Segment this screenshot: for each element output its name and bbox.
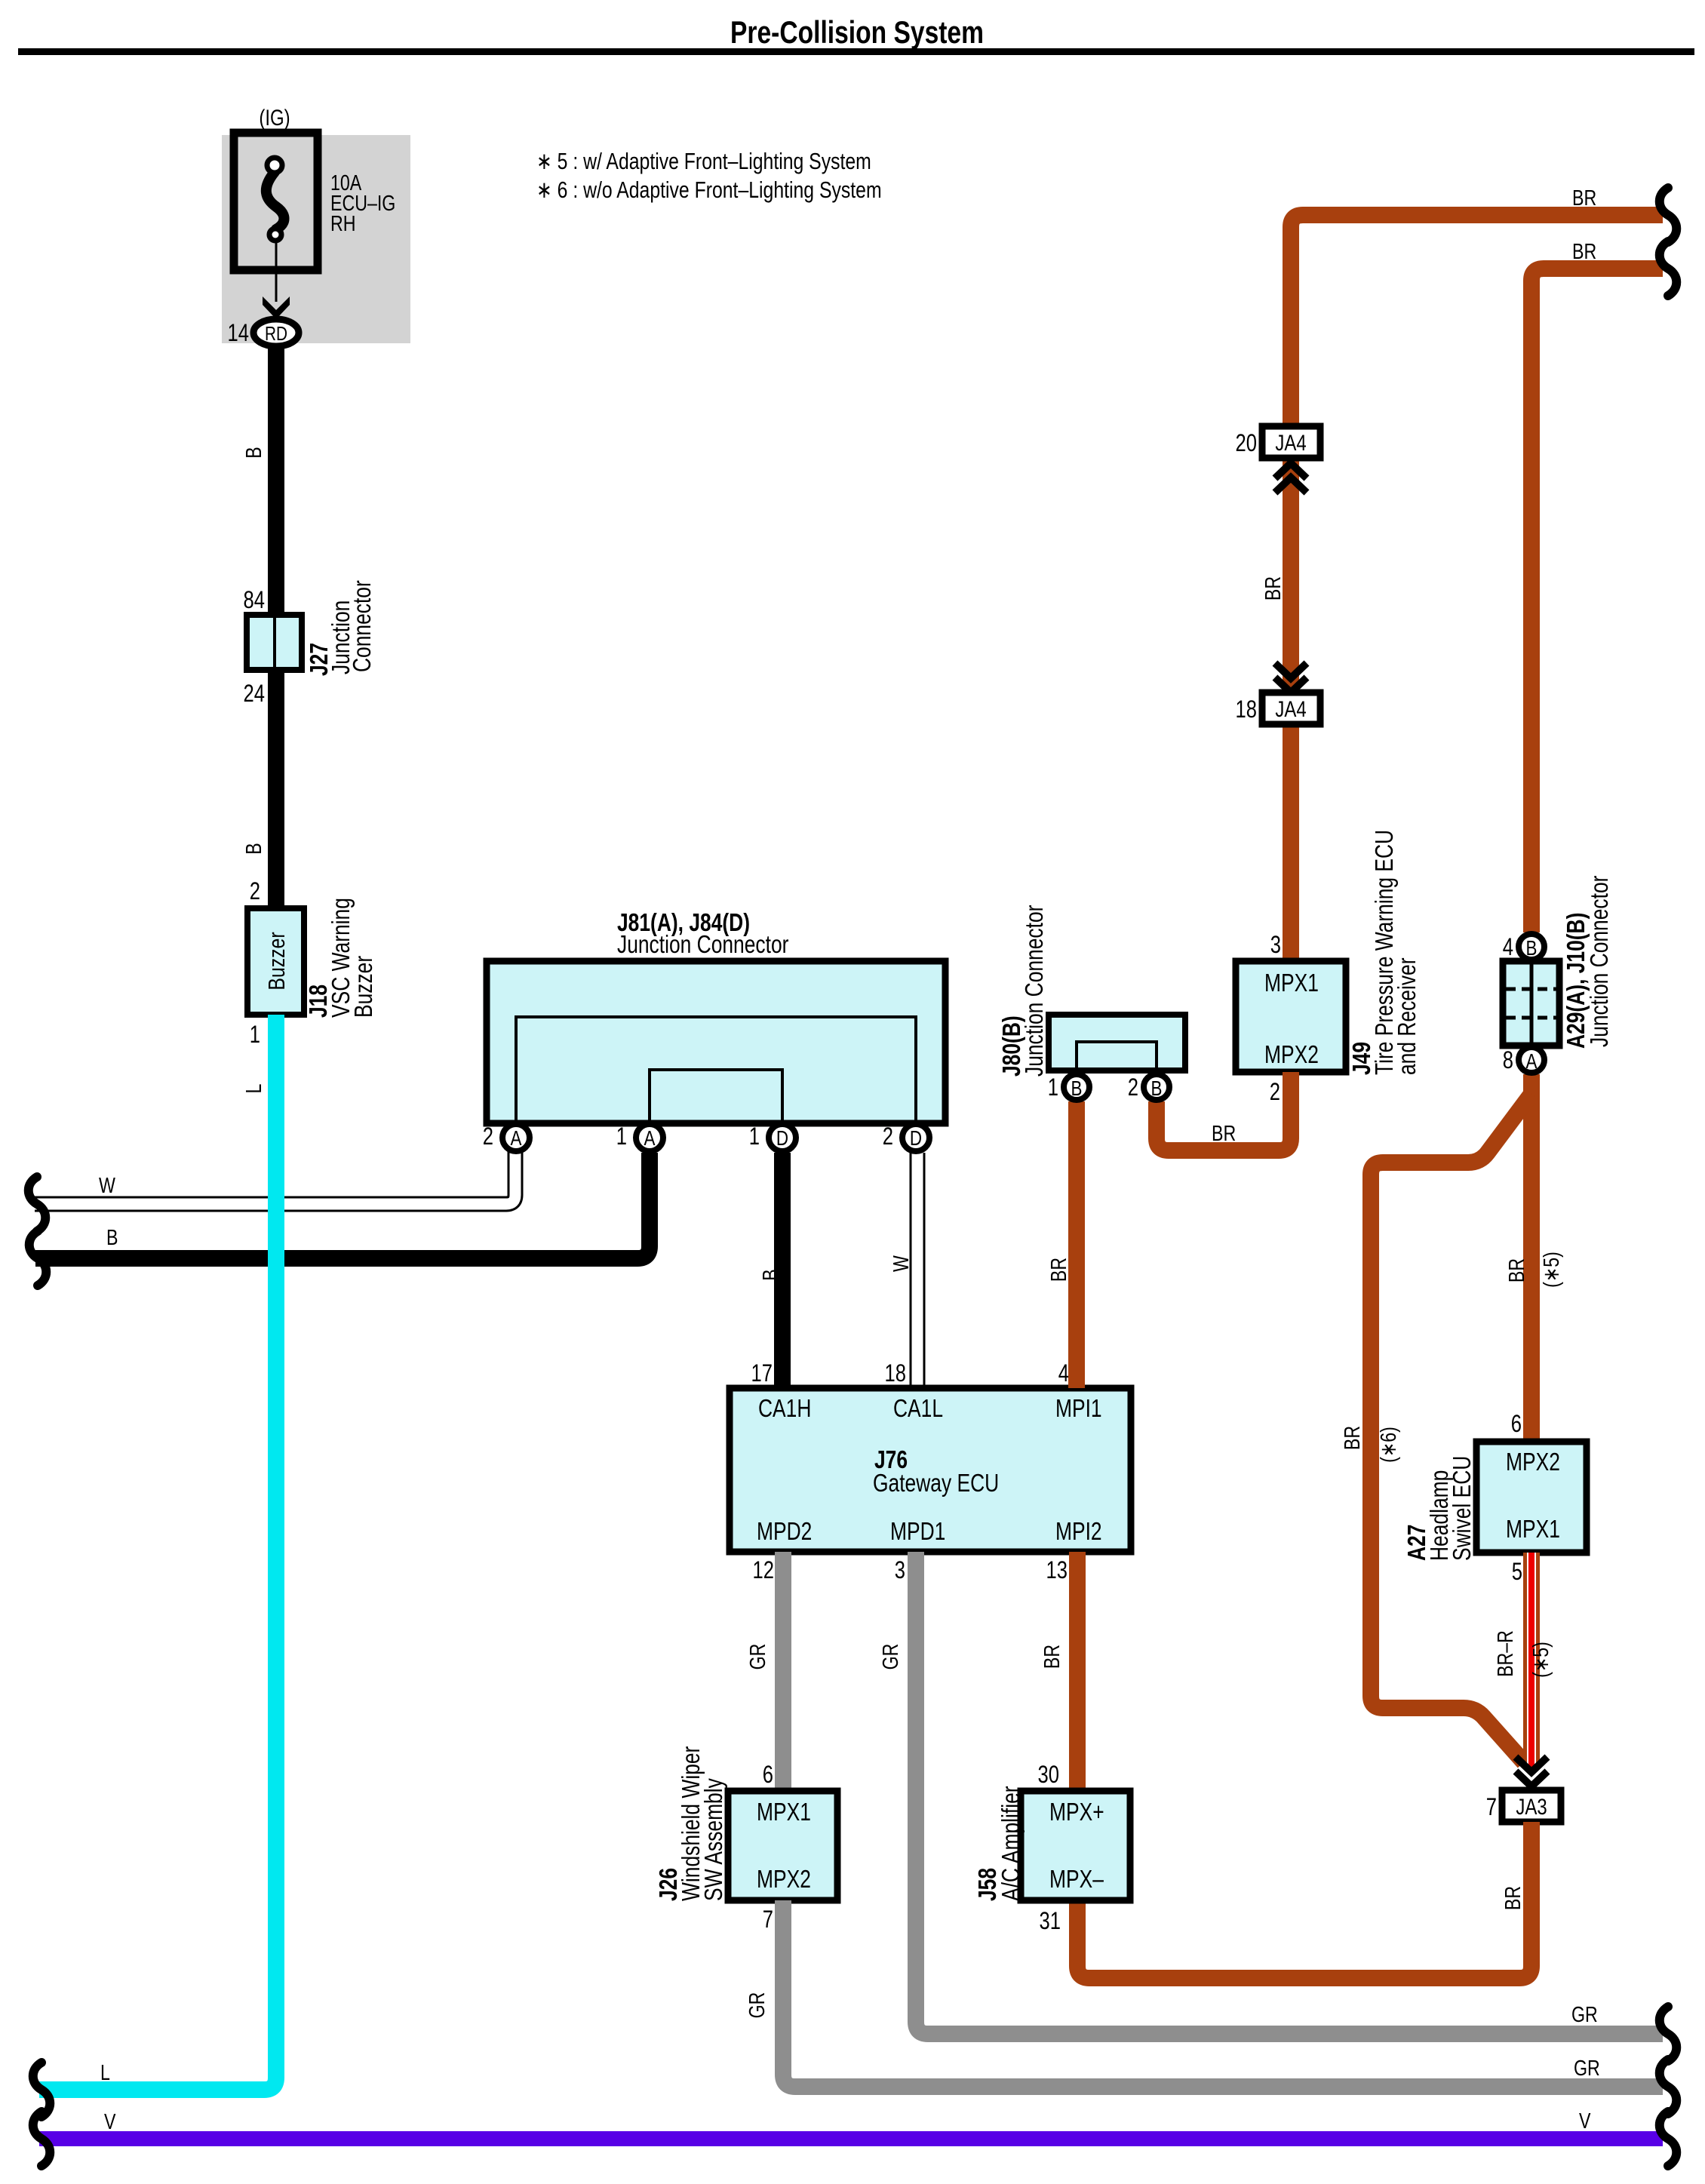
svg-text:MPI2: MPI2 xyxy=(1055,1518,1102,1545)
svg-text:MPX+: MPX+ xyxy=(1049,1798,1104,1826)
svg-text:B: B xyxy=(1151,1077,1163,1101)
svg-text:Junction Connector: Junction Connector xyxy=(617,931,788,958)
svg-text:MPX1: MPX1 xyxy=(1264,969,1319,997)
svg-text:MPD2: MPD2 xyxy=(757,1518,812,1545)
svg-text:MPX1: MPX1 xyxy=(757,1798,811,1826)
svg-text:W: W xyxy=(99,1172,115,1197)
fuse F1 10A ECU-IG RH body xyxy=(234,133,318,270)
svg-text:B: B xyxy=(1526,937,1538,960)
wire BR JA3 down xyxy=(1077,1822,1531,1978)
svg-text:(∗5): (∗5) xyxy=(1528,1642,1553,1678)
title rule xyxy=(18,48,1694,55)
break V left xyxy=(33,2112,51,2166)
svg-text:V: V xyxy=(1579,2108,1591,2133)
svg-text:2: 2 xyxy=(483,1123,493,1150)
svg-text:L: L xyxy=(241,1084,266,1094)
svg-text:D: D xyxy=(776,1127,788,1150)
break L left xyxy=(33,2063,51,2117)
connector RD oval xyxy=(253,319,299,346)
svg-text:4: 4 xyxy=(1503,934,1513,960)
pin circle 1D xyxy=(769,1124,796,1151)
break BR top1 xyxy=(1660,188,1677,242)
svg-text:MPX2: MPX2 xyxy=(1264,1041,1319,1068)
svg-text:(∗5): (∗5) xyxy=(1538,1252,1563,1288)
svg-text:1: 1 xyxy=(616,1123,627,1150)
svg-text:JA4: JA4 xyxy=(1275,696,1306,721)
pin circle 8A xyxy=(1519,1047,1544,1073)
arrow into JA3 xyxy=(1516,1757,1547,1772)
break B left xyxy=(29,1231,47,1286)
svg-text:1: 1 xyxy=(250,1021,260,1048)
pin circle 1B xyxy=(1064,1074,1089,1100)
pin circle 2B xyxy=(1144,1074,1169,1100)
wire BR J80-2B to J49 xyxy=(1157,1072,1291,1150)
svg-text:7: 7 xyxy=(1486,1794,1497,1820)
svg-text:Pre-Collision System: Pre-Collision System xyxy=(730,16,984,51)
arrow into RD xyxy=(263,296,290,319)
svg-text:B: B xyxy=(241,843,266,854)
J80 internal bus xyxy=(1077,1042,1157,1070)
svg-text:24: 24 xyxy=(244,680,265,707)
arrow into JA4 lower xyxy=(1275,663,1307,678)
wire GR J26 pin7 down xyxy=(783,1900,1663,2087)
svg-text:4: 4 xyxy=(1058,1360,1069,1387)
wire L cyan xyxy=(39,1015,276,2090)
svg-text:Swivel ECU: Swivel ECU xyxy=(1448,1456,1476,1561)
svg-text:6: 6 xyxy=(763,1762,773,1788)
svg-text:D: D xyxy=(910,1127,922,1150)
svg-text:18: 18 xyxy=(1236,696,1257,723)
break GR right1 xyxy=(1660,2007,1677,2061)
wire W 2D to J76 xyxy=(910,1153,926,1388)
svg-text:B: B xyxy=(1071,1077,1083,1101)
wire B J27-to-J18 xyxy=(268,670,284,908)
wire BR A29 down xyxy=(1523,1074,1540,1442)
tire pressure ECU J49 xyxy=(1236,961,1346,1072)
svg-text:A/C Amplifier: A/C Amplifier xyxy=(997,1786,1025,1901)
svg-text:BR: BR xyxy=(1339,1426,1364,1450)
svg-text:1: 1 xyxy=(1048,1074,1058,1101)
svg-text:2: 2 xyxy=(1128,1074,1138,1101)
svg-text:Buzzer: Buzzer xyxy=(263,932,289,990)
headlamp swivel ECU A27 xyxy=(1476,1442,1587,1553)
wire B left xyxy=(35,1153,650,1258)
svg-text:B: B xyxy=(241,447,266,458)
svg-text:RH: RH xyxy=(330,210,356,235)
svg-text:MPD1: MPD1 xyxy=(890,1518,945,1545)
svg-text:RD: RD xyxy=(265,323,287,345)
wiper SW J26 xyxy=(728,1791,837,1900)
wire V xyxy=(39,2131,1663,2146)
svg-text:JA4: JA4 xyxy=(1275,429,1306,455)
svg-text:BR: BR xyxy=(1039,1645,1064,1669)
svg-text:MPX–: MPX– xyxy=(1049,1866,1104,1893)
svg-text:18: 18 xyxy=(885,1360,906,1387)
buzzer J18 xyxy=(247,908,304,1015)
wire BR J80-1B to J76 xyxy=(1068,1101,1085,1388)
fuse F1 element xyxy=(266,172,284,229)
connector JA4 lower xyxy=(1262,693,1320,724)
svg-text:Junction Connector: Junction Connector xyxy=(1586,876,1613,1047)
pin circle 4B xyxy=(1519,934,1544,960)
svg-text:BR: BR xyxy=(1046,1258,1071,1282)
svg-text:CA1L: CA1L xyxy=(893,1395,943,1422)
wire GR MPD1 down xyxy=(916,1552,1663,2034)
svg-text:A: A xyxy=(511,1127,522,1150)
pin circle 1A xyxy=(636,1124,663,1151)
svg-text:3: 3 xyxy=(1270,932,1281,958)
svg-text:∗ 5 : w/ Adaptive Front–Lighti: ∗ 5 : w/ Adaptive Front–Lighting System xyxy=(536,148,871,174)
svg-text:6: 6 xyxy=(1511,1411,1522,1437)
connector JA3 xyxy=(1502,1790,1561,1822)
svg-text:MPI1: MPI1 xyxy=(1055,1395,1102,1422)
svg-text:∗ 6 : w/o Adaptive Front–Light: ∗ 6 : w/o Adaptive Front–Lighting System xyxy=(536,177,882,202)
svg-text:SW Assembly: SW Assembly xyxy=(700,1778,727,1901)
svg-text:BR: BR xyxy=(1572,185,1596,210)
svg-text:17: 17 xyxy=(751,1360,773,1387)
svg-text:L: L xyxy=(100,2060,110,2084)
svg-text:BR: BR xyxy=(1500,1886,1525,1910)
break W left xyxy=(29,1177,46,1231)
svg-text:B: B xyxy=(757,1269,782,1280)
svg-text:2: 2 xyxy=(1270,1079,1280,1105)
svg-text:A: A xyxy=(644,1127,656,1150)
wire BR top 2 xyxy=(1531,269,1663,932)
AC amplifier J58 xyxy=(1021,1791,1130,1900)
wire GR MPD2 to J26 xyxy=(775,1552,791,1791)
break BR top2 xyxy=(1660,241,1677,296)
wire W left xyxy=(35,1147,515,1204)
svg-text:31: 31 xyxy=(1040,1908,1061,1934)
svg-text:2: 2 xyxy=(883,1123,893,1150)
svg-text:(∗6): (∗6) xyxy=(1375,1427,1400,1463)
gateway ECU J76 xyxy=(730,1388,1131,1552)
svg-text:W: W xyxy=(888,1255,913,1272)
connector JA4 upper xyxy=(1262,426,1320,458)
svg-text:JA3: JA3 xyxy=(1516,1793,1547,1819)
fuse block shading xyxy=(222,135,410,343)
svg-text:B: B xyxy=(106,1224,118,1249)
svg-text:3: 3 xyxy=(895,1557,905,1583)
svg-text:8: 8 xyxy=(1503,1047,1513,1074)
svg-text:Gateway ECU: Gateway ECU xyxy=(873,1470,999,1497)
wire B fuse-to-J27 xyxy=(268,343,284,615)
junction connector J80 body xyxy=(1049,1015,1185,1070)
svg-text:5: 5 xyxy=(1512,1559,1522,1585)
svg-text:V: V xyxy=(104,2109,116,2133)
svg-text:GR: GR xyxy=(1571,2001,1598,2026)
wire BR top 1 xyxy=(1291,215,1663,961)
svg-text:BR–R: BR–R xyxy=(1492,1630,1517,1677)
svg-text:12: 12 xyxy=(753,1557,774,1583)
wire B 1D to J76 xyxy=(774,1153,791,1388)
J81 internal bus B xyxy=(650,1070,782,1123)
junction connector A29 J10 body xyxy=(1503,961,1559,1046)
pin circle 2D xyxy=(902,1124,929,1151)
svg-text:1: 1 xyxy=(749,1123,760,1150)
svg-text:BR: BR xyxy=(1212,1120,1236,1145)
svg-text:GR: GR xyxy=(745,1644,770,1670)
svg-text:CA1H: CA1H xyxy=(758,1395,811,1422)
junction connector J81 J84 body xyxy=(487,961,945,1123)
wire BR MPI2 to J58 xyxy=(1069,1552,1086,1791)
svg-text:Connector: Connector xyxy=(349,580,376,672)
svg-text:30: 30 xyxy=(1038,1762,1059,1788)
svg-text:84: 84 xyxy=(244,587,265,613)
svg-text:14: 14 xyxy=(228,320,249,346)
J81 internal bus A xyxy=(516,1017,916,1123)
A29 grid dash rows xyxy=(1506,988,1556,991)
svg-text:13: 13 xyxy=(1046,1557,1068,1583)
wire fuse to RD xyxy=(275,240,278,302)
svg-text:MPX2: MPX2 xyxy=(1506,1448,1560,1476)
arrow into JA4 upper xyxy=(1275,463,1307,478)
break GR right2 xyxy=(1660,2060,1677,2114)
svg-text:GR: GR xyxy=(1574,2055,1600,2080)
svg-text:MPX2: MPX2 xyxy=(757,1866,811,1893)
svg-text:2: 2 xyxy=(250,878,260,905)
svg-text:BR: BR xyxy=(1504,1258,1528,1282)
svg-text:20: 20 xyxy=(1236,430,1257,456)
pin circle 2A xyxy=(502,1124,530,1151)
svg-text:BR: BR xyxy=(1260,576,1285,601)
svg-text:and Receiver: and Receiver xyxy=(1393,957,1421,1075)
svg-text:GR: GR xyxy=(744,1992,769,2019)
svg-text:MPX1: MPX1 xyxy=(1506,1516,1560,1543)
svg-text:Junction Connector: Junction Connector xyxy=(1021,905,1048,1077)
wire BR-R xyxy=(1523,1553,1540,1767)
junction connector J27 xyxy=(247,615,302,670)
svg-text:7: 7 xyxy=(763,1906,773,1933)
A29 grid vertical xyxy=(1530,964,1534,1043)
svg-text:GR: GR xyxy=(877,1644,902,1670)
svg-text:BR: BR xyxy=(1572,238,1596,263)
break V right xyxy=(1660,2112,1677,2166)
svg-text:Buzzer: Buzzer xyxy=(350,956,377,1018)
svg-text:(IG): (IG) xyxy=(259,104,290,130)
svg-text:A: A xyxy=(1526,1050,1538,1074)
wire BR *6 branch xyxy=(1371,1094,1531,1762)
